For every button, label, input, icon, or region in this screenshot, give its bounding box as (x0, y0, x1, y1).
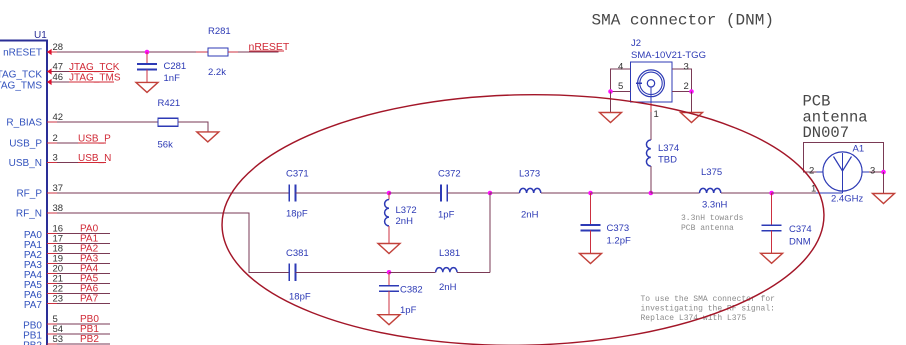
svg-text:L373: L373 (519, 169, 540, 180)
svg-text:U1: U1 (34, 30, 47, 41)
net label USB_N (78, 153, 111, 164)
node SMA left ground junction (608, 89, 613, 94)
node C371/L372 junction (387, 191, 392, 196)
wire (389, 192, 441, 194)
capacitor C381 (286, 248, 311, 303)
net label PA6 (80, 283, 99, 294)
wire from bottom branch (489, 193, 491, 272)
pin 53 PB2 wire (23, 334, 110, 345)
net label JTAG_TMS (69, 73, 121, 84)
node L374 junction (649, 191, 654, 196)
svg-text:JTAG_TMS: JTAG_TMS (0, 81, 42, 92)
pin 47 JTAG_TCK wire (0, 62, 108, 81)
pin 2 USB_P wire (9, 133, 106, 150)
svg-text:R281: R281 (208, 26, 231, 37)
highlight ellipse annotation (220, 89, 827, 345)
svg-text:L381: L381 (439, 248, 460, 259)
resistor R421 (158, 98, 181, 151)
svg-text:1pF: 1pF (400, 305, 417, 316)
capacitor C373 (581, 193, 631, 254)
node C374 junction (769, 191, 774, 196)
node C372/L381 junction (488, 191, 493, 196)
net label PA0 (80, 223, 99, 234)
net label PA2 (80, 243, 99, 254)
net label PA4 (80, 263, 99, 274)
svg-text:5: 5 (618, 81, 623, 92)
svg-text:PA7: PA7 (80, 293, 99, 304)
pin 3 wire (869, 166, 884, 177)
node C382 junction (387, 270, 392, 275)
pin 19 PA3 wire (24, 253, 110, 271)
svg-text:3: 3 (870, 166, 875, 177)
pin 22 PA6 wire (24, 283, 110, 301)
svg-text:RF_N: RF_N (16, 209, 42, 220)
svg-text:46: 46 (53, 72, 64, 83)
svg-text:L374: L374 (658, 143, 679, 154)
svg-text:J2: J2 (631, 38, 641, 49)
net label nRESET (249, 41, 290, 53)
svg-text:A1: A1 (853, 144, 865, 155)
ground (681, 113, 703, 123)
ground (761, 253, 783, 263)
svg-text:3: 3 (684, 62, 689, 73)
svg-text:18pF: 18pF (289, 292, 311, 303)
connector J2 SMA symbol (631, 62, 673, 102)
ground (378, 315, 400, 325)
pin 2 wire (804, 142, 884, 176)
svg-text:C374: C374 (789, 224, 812, 235)
svg-text:28: 28 (53, 42, 64, 53)
svg-text:L372: L372 (396, 205, 417, 216)
svg-text:18pF: 18pF (286, 209, 308, 220)
svg-text:SMA connector (DNM): SMA connector (DNM) (592, 12, 774, 30)
svg-text:C371: C371 (286, 169, 309, 180)
capacitor C372 (438, 169, 461, 221)
net label PB1 (80, 324, 99, 335)
svg-text:3.3nH towards: 3.3nH towards (681, 214, 744, 223)
wire (591, 192, 651, 194)
pin 20 PA4 wire (24, 263, 110, 281)
svg-text:2: 2 (684, 81, 689, 92)
wire (610, 92, 612, 113)
svg-text:RF_P: RF_P (16, 189, 42, 200)
svg-text:3: 3 (53, 153, 58, 164)
net label PB2 (80, 334, 99, 345)
svg-text:DNM: DNM (789, 237, 811, 248)
svg-text:DN007: DN007 (803, 124, 850, 142)
svg-text:2.4GHz: 2.4GHz (831, 194, 863, 205)
ground (873, 194, 895, 204)
annotation 3.3nH towards PCB antenna (681, 214, 744, 233)
wire (883, 172, 885, 194)
wire to ground (178, 122, 208, 132)
connector J2 labels (631, 38, 706, 61)
wire (447, 192, 490, 194)
svg-text:C382: C382 (400, 285, 423, 296)
svg-text:C381: C381 (286, 248, 309, 259)
svg-text:47: 47 (53, 62, 64, 73)
svg-text:PCB antenna: PCB antenna (681, 224, 734, 233)
capacitor C371 (286, 169, 309, 220)
svg-text:PA7: PA7 (24, 300, 43, 311)
node SMA right ground junction (689, 89, 694, 94)
svg-text:PB2: PB2 (23, 341, 42, 345)
pin 21 PA5 wire (24, 273, 110, 291)
IC U1 (0, 30, 47, 345)
svg-text:1pF: 1pF (438, 210, 455, 221)
svg-text:38: 38 (53, 203, 64, 214)
svg-text:2nH: 2nH (521, 210, 539, 221)
svg-text:C281: C281 (164, 61, 187, 72)
pin 4 wire (611, 62, 631, 92)
pin 38 RF_N wire (16, 203, 289, 272)
capacitor C382 (379, 272, 423, 316)
ground (378, 244, 400, 254)
svg-text:1.2pF: 1.2pF (607, 236, 631, 247)
svg-text:PB2: PB2 (80, 334, 99, 345)
svg-text:3.3nH: 3.3nH (702, 200, 727, 211)
net label PA7 (80, 293, 99, 304)
net label JTAG_TCK (69, 62, 120, 73)
svg-text:Replace L374 with L375: Replace L374 with L375 (641, 314, 747, 323)
pin 1 wire (651, 87, 659, 120)
wire (296, 271, 390, 273)
wire up to top row (457, 271, 490, 273)
svg-text:JTAG_TCK: JTAG_TCK (0, 70, 42, 81)
svg-text:2: 2 (809, 166, 814, 177)
svg-text:42: 42 (53, 112, 64, 123)
wire (490, 192, 520, 194)
svg-text:37: 37 (53, 183, 64, 194)
node antenna junction (881, 170, 886, 175)
net label PA5 (80, 273, 99, 284)
svg-text:4: 4 (618, 62, 623, 73)
svg-text:USB_N: USB_N (9, 158, 42, 169)
inductor L372 (385, 193, 417, 244)
svg-text:L375: L375 (701, 167, 722, 178)
pin 2 wire (672, 81, 692, 92)
wire (296, 192, 390, 194)
svg-text:R421: R421 (158, 98, 181, 109)
node C373 junction (588, 191, 593, 196)
svg-text:C372: C372 (438, 169, 461, 180)
pin 16 PA0 wire (24, 223, 110, 241)
inductor L381 (436, 248, 460, 293)
net label PA1 (80, 233, 99, 244)
node nRESET junction (145, 50, 150, 55)
pin 54 PB1 wire (23, 324, 110, 342)
wire to antenna (772, 192, 816, 194)
section header PCB antenna DN007 (803, 93, 868, 143)
pin 18 PA2 wire (24, 243, 110, 260)
capacitor C281 (137, 52, 186, 84)
svg-text:1nF: 1nF (164, 73, 181, 84)
pin 46 JTAG_TMS wire (0, 72, 108, 92)
net label PA3 (80, 253, 99, 264)
wire (541, 192, 591, 194)
pin 42 R_BIAS wire (6, 112, 158, 129)
pin 28 nRESET wire (3, 42, 208, 59)
net label USB_P (78, 134, 111, 145)
wire (691, 92, 693, 113)
svg-text:TBD: TBD (658, 155, 677, 166)
svg-text:2.2k: 2.2k (208, 67, 226, 78)
svg-text:23: 23 (53, 293, 64, 304)
inductor L374 (646, 103, 679, 193)
pin 3 USB_N wire (9, 153, 106, 170)
pin 23 PA7 wire (24, 293, 110, 311)
pin 3 wire (672, 62, 692, 92)
pin 17 PA1 wire (24, 233, 110, 251)
ground (580, 254, 602, 264)
ground (136, 82, 158, 92)
svg-text:2: 2 (53, 133, 58, 144)
inductor L375 (700, 167, 728, 211)
inductor L373 (519, 169, 541, 221)
antenna A1 symbol (816, 152, 869, 205)
ground (197, 132, 219, 142)
svg-text:2nH: 2nH (396, 216, 414, 227)
svg-text:56k: 56k (158, 140, 174, 151)
svg-text:SMA-10V21-TGG: SMA-10V21-TGG (631, 50, 706, 61)
wire (389, 271, 436, 273)
ground (600, 113, 622, 123)
svg-text:USB_P: USB_P (9, 139, 42, 150)
svg-text:1: 1 (654, 109, 659, 120)
svg-text:53: 53 (53, 334, 64, 345)
resistor R281 (196, 26, 238, 78)
pin 37 RF_P wire (16, 183, 289, 200)
wire nRESET net (238, 51, 279, 53)
capacitor C374 (762, 193, 812, 253)
net label PB0 (80, 314, 99, 325)
wire (721, 192, 772, 194)
pin 5 PB0 wire (23, 314, 110, 332)
wire (651, 192, 700, 194)
svg-text:nRESET: nRESET (3, 48, 42, 59)
svg-text:investigating the RF signal:: investigating the RF signal: (641, 305, 775, 314)
svg-text:2nH: 2nH (439, 282, 457, 293)
svg-text:C373: C373 (607, 223, 630, 234)
annotation replace L374 note (641, 295, 776, 323)
svg-text:R_BIAS: R_BIAS (6, 118, 42, 129)
pin 5 wire (611, 81, 631, 92)
